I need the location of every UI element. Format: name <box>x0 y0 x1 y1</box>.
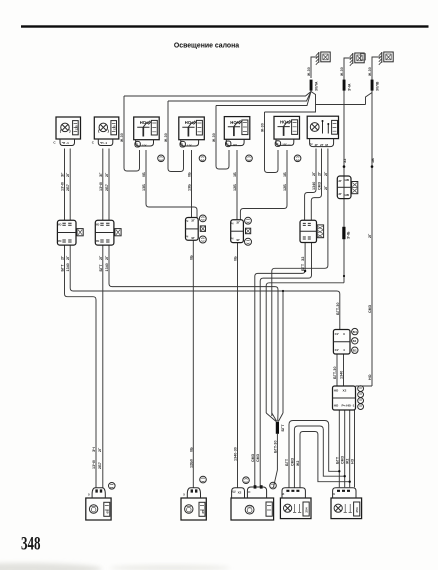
svg-text:2Г: 2Г <box>320 143 324 147</box>
svg-text:СУ: СУ <box>335 332 339 336</box>
svg-text:13Ч0: 13Ч0 <box>99 182 103 191</box>
svg-text:13Ч0: 13Ч0 <box>61 182 65 191</box>
svg-text:БГТ: БГТ <box>281 424 285 432</box>
svg-text:X2: X2 <box>238 491 242 495</box>
svg-text:ЗГ: ЗГ <box>61 173 65 178</box>
svg-text:ЗЧ: ЗЧ <box>92 447 96 452</box>
svg-text:Ж-30: Ж-30 <box>307 67 311 77</box>
svg-text:СУ: СУ <box>335 348 339 352</box>
svg-text:2Г: 2Г <box>66 173 70 177</box>
svg-text:0Б: 0Б <box>142 172 146 177</box>
svg-text:2Г: 2Г <box>315 143 319 147</box>
svg-text:2Г: 2Г <box>338 179 342 183</box>
svg-text:30ЛА: 30ЛА <box>314 81 318 91</box>
svg-text:1340: 1340 <box>312 182 316 190</box>
svg-text:12Б: 12Б <box>233 184 237 191</box>
svg-text:НО: НО <box>334 388 339 392</box>
svg-text:0Б: 0Б <box>234 256 238 261</box>
svg-text:2Г: 2Г <box>312 172 316 176</box>
svg-text:З2: З2 <box>343 159 347 163</box>
svg-text:1Б: 1Б <box>283 172 287 177</box>
svg-text:Освещение салона: Освещение салона <box>174 43 239 50</box>
svg-text:ЗЧБ: ЗЧБ <box>347 231 351 239</box>
svg-text:2Г: 2Г <box>318 172 322 176</box>
svg-text:2Г: 2Г <box>324 172 328 176</box>
svg-text:3: 3 <box>343 332 345 336</box>
svg-text:1340: 1340 <box>66 263 70 271</box>
svg-text:БГТ: БГТ <box>301 263 305 271</box>
svg-text:2Б7: 2Б7 <box>66 184 70 191</box>
svg-text:Ж-30: Ж-30 <box>260 123 264 133</box>
svg-text:4: 4 <box>343 348 345 352</box>
svg-text:2Г: 2Г <box>61 256 65 260</box>
svg-text:2Г: 2Г <box>324 186 328 190</box>
svg-text:Ж-30: Ж-30 <box>120 133 124 143</box>
svg-text:З2: З2 <box>301 257 305 261</box>
svg-text:1Б: 1Б <box>371 158 375 163</box>
svg-text:12Б: 12Б <box>283 184 287 191</box>
svg-text:БГТ: БГТ <box>285 458 289 466</box>
svg-text:БГТ: БГТ <box>99 264 103 272</box>
svg-text:82: 82 <box>353 339 357 343</box>
svg-text:2Г: 2Г <box>105 173 109 177</box>
svg-text:Б1: Б1 <box>353 349 357 353</box>
svg-text:1340-30: 1340-30 <box>234 447 238 461</box>
svg-text:13Ч0: 13Ч0 <box>92 460 96 469</box>
svg-text:1340: 1340 <box>105 263 109 271</box>
svg-text:2Г: 2Г <box>66 256 70 260</box>
svg-text:СМЗ: СМЗ <box>341 455 345 464</box>
svg-text:ЗЧА: ЗЧА <box>347 83 351 91</box>
svg-text:М: М <box>325 143 328 147</box>
svg-text:БГТ: БГТ <box>335 456 339 464</box>
svg-text:НБ: НБ <box>345 178 350 182</box>
svg-text:Рч НВ -1: Рч НВ -1 <box>342 404 355 408</box>
svg-text:2Г: 2Г <box>98 448 102 452</box>
svg-text:СМЗ: СМЗ <box>256 453 260 462</box>
svg-text:БГТ-30: БГТ-30 <box>273 440 277 453</box>
svg-text:Ч: Ч <box>310 142 312 146</box>
svg-text:12Б0: 12Б0 <box>189 459 193 468</box>
svg-text:0Б: 0Б <box>188 172 192 177</box>
svg-text:Ш: Ш <box>232 490 235 494</box>
svg-text:Б4: Б4 <box>353 330 357 334</box>
svg-text:ЗГ: ЗГ <box>99 173 103 178</box>
svg-text:Ж-30: Ж-30 <box>212 133 216 143</box>
svg-text:1340: 1340 <box>340 371 344 379</box>
svg-text:2Г: 2Г <box>99 256 103 260</box>
svg-text:НО: НО <box>368 374 372 380</box>
svg-text:348: 348 <box>21 534 41 555</box>
svg-text:X2: X2 <box>343 388 347 392</box>
svg-text:Ж2: Ж2 <box>346 459 350 465</box>
svg-text:СМЗ: СМЗ <box>251 453 255 462</box>
svg-text:НБ: НБ <box>345 193 350 197</box>
svg-text:Ж-30: Ж-30 <box>368 67 372 77</box>
svg-text:13Б: 13Б <box>188 184 192 191</box>
svg-text:НО: НО <box>334 404 339 408</box>
svg-text:Ж-30: Ж-30 <box>340 67 344 77</box>
svg-text:0Б: 0Б <box>189 447 193 452</box>
svg-text:СМЗ: СМЗ <box>290 457 294 466</box>
svg-text:БГТ-30: БГТ-30 <box>333 366 337 379</box>
svg-text:0Б: 0Б <box>189 255 193 260</box>
svg-text:2Б7: 2Б7 <box>105 184 109 191</box>
svg-text:НЗ: НЗ <box>351 458 355 464</box>
svg-text:Ж2: Ж2 <box>296 461 300 467</box>
svg-text:СМЗ: СМЗ <box>368 304 372 313</box>
svg-text:СМЗ: СМЗ <box>318 181 322 190</box>
svg-text:Ж-30: Ж-30 <box>164 133 168 143</box>
svg-text:1Б: 1Б <box>233 172 237 177</box>
svg-text:30ЛВ: 30ЛВ <box>375 81 379 91</box>
svg-text:БГТ: БГТ <box>61 264 65 272</box>
svg-text:2Г: 2Г <box>338 192 342 196</box>
svg-text:2Г: 2Г <box>368 234 372 238</box>
svg-text:2Г: 2Г <box>105 256 109 260</box>
svg-text:13Б: 13Б <box>142 184 146 191</box>
svg-text:2Б7: 2Б7 <box>98 462 102 469</box>
svg-text:БГТ-30: БГТ-30 <box>336 302 340 315</box>
